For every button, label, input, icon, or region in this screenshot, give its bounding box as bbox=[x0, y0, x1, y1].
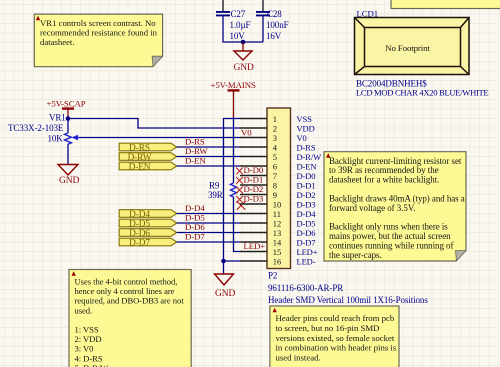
wire C28 bottom bbox=[262, 15, 264, 42]
svg-text:100nF: 100nF bbox=[266, 20, 289, 30]
svg-text:D-RS: D-RS bbox=[129, 143, 150, 153]
LCD module LCD1 3D body bbox=[355, 18, 470, 75]
connector P2 body bbox=[267, 108, 291, 269]
pin 1 stub bbox=[240, 118, 267, 120]
wire C28 top stub bbox=[262, 0, 264, 11]
no-ERC cross at label D-D2 bbox=[236, 187, 243, 194]
pin 9 stub bbox=[240, 194, 267, 196]
pin 15 stub bbox=[240, 251, 267, 253]
svg-text:Header SMD Vertical 100mil 1X1: Header SMD Vertical 100mil 1X16-Position… bbox=[268, 295, 428, 305]
pin 12 stub bbox=[240, 222, 267, 224]
wire D-RS to pin 4 bbox=[177, 146, 240, 148]
svg-text:D-D6: D-D6 bbox=[297, 228, 316, 238]
svg-text:D-D6: D-D6 bbox=[129, 229, 150, 239]
note: header pins note bbox=[270, 306, 399, 367]
svg-text:D-EN: D-EN bbox=[185, 156, 206, 166]
svg-text:16V: 16V bbox=[266, 31, 282, 41]
svg-text:5: 5 bbox=[273, 152, 277, 162]
wire D-D6 to pin 13 bbox=[177, 232, 240, 234]
potentiometer VR1 bbox=[8, 113, 80, 165]
svg-text:14: 14 bbox=[273, 237, 282, 247]
wire VDD: +5V-SCAP to pin 2 bbox=[68, 119, 240, 129]
svg-text:VR1: VR1 bbox=[49, 113, 66, 123]
svg-text:C27: C27 bbox=[231, 9, 246, 19]
wire D-D5 to pin 12 bbox=[177, 222, 240, 224]
pin 7 stub bbox=[240, 175, 267, 177]
capacitor C28 bbox=[256, 9, 289, 41]
pin 14 stub bbox=[240, 241, 267, 243]
junction LED- / VSS bbox=[221, 259, 226, 264]
pin 4 stub bbox=[240, 146, 267, 148]
wire D-D4 to pin 11 bbox=[177, 213, 240, 215]
pin 13 stub bbox=[240, 232, 267, 234]
note: VR1 contrast note bbox=[34, 14, 162, 67]
no-ERC cross at label D-D1 bbox=[236, 177, 243, 184]
svg-text:+5V-SCAP: +5V-SCAP bbox=[47, 99, 86, 109]
svg-text:VDD: VDD bbox=[297, 123, 315, 133]
no-ERC cross at label D-D3 bbox=[236, 196, 243, 203]
wire C27 bottom bbox=[223, 15, 263, 42]
svg-text:16: 16 bbox=[273, 256, 282, 266]
svg-text:D-D1: D-D1 bbox=[297, 180, 316, 190]
power +5V-SCAP bbox=[47, 99, 86, 119]
svg-text:LED+: LED+ bbox=[297, 247, 318, 257]
pin 16 stub bbox=[240, 260, 267, 262]
svg-text:39R: 39R bbox=[208, 190, 223, 200]
svg-text:D-D7: D-D7 bbox=[185, 232, 205, 242]
svg-text:D-D7: D-D7 bbox=[297, 237, 316, 247]
wire R9 to LED+ pin 15 bbox=[234, 197, 241, 252]
svg-text:8: 8 bbox=[273, 180, 277, 190]
no-ERC cross at label D-D0 bbox=[236, 168, 243, 175]
svg-text:6: 6 bbox=[273, 161, 277, 171]
port D-D6 bbox=[119, 229, 176, 237]
wire LED- pin16 bbox=[224, 260, 241, 262]
svg-text:D-RS: D-RS bbox=[185, 137, 205, 147]
svg-text:1: 1 bbox=[273, 114, 277, 124]
pin 6 stub bbox=[240, 165, 267, 167]
svg-text:R9: R9 bbox=[209, 181, 220, 191]
wire D-D7 to pin 14 bbox=[177, 241, 240, 243]
node +5V-SCAP junction bbox=[66, 116, 71, 121]
svg-text:D-EN: D-EN bbox=[129, 162, 151, 172]
svg-text:No Footprint: No Footprint bbox=[385, 43, 430, 53]
pin 2 stub bbox=[240, 127, 267, 129]
wire +5V-MAINS down to R9 bbox=[233, 117, 235, 183]
svg-text:7: 7 bbox=[273, 171, 277, 181]
svg-text:D-D2: D-D2 bbox=[297, 190, 316, 200]
note: 4-bit control method note bbox=[69, 270, 191, 367]
svg-text:11: 11 bbox=[273, 209, 281, 219]
svg-text:D-EN: D-EN bbox=[297, 161, 317, 171]
pin 8 stub bbox=[240, 184, 267, 186]
port D-D5 bbox=[119, 219, 176, 227]
svg-text:10V: 10V bbox=[230, 31, 246, 41]
svg-text:LCD MOD CHAR 4X20 BLUE/WHITE: LCD MOD CHAR 4X20 BLUE/WHITE bbox=[356, 88, 488, 98]
ground (bottom middle) bbox=[215, 274, 236, 299]
wire V0: wiper to pin 3 bbox=[80, 137, 240, 139]
wire C27 top stub bbox=[222, 0, 224, 11]
note: backlight explanation bbox=[324, 152, 466, 261]
svg-text:V0: V0 bbox=[241, 128, 252, 138]
svg-text:D-RW: D-RW bbox=[128, 153, 152, 163]
svg-text:10K: 10K bbox=[48, 134, 64, 144]
junction top GND bbox=[241, 40, 246, 45]
svg-text:13: 13 bbox=[273, 228, 282, 238]
svg-text:D-D5: D-D5 bbox=[129, 219, 150, 229]
svg-text:D-RW: D-RW bbox=[185, 146, 208, 156]
note: top-right cut-off note bbox=[391, 0, 500, 9]
svg-text:3: 3 bbox=[273, 133, 277, 143]
ground (below VR1) bbox=[58, 165, 80, 187]
svg-text:D-D5: D-D5 bbox=[185, 213, 205, 223]
svg-text:1.0µF: 1.0µF bbox=[230, 20, 251, 30]
svg-text:D-D0: D-D0 bbox=[297, 171, 316, 181]
power +5V-MAINS bbox=[211, 80, 256, 117]
svg-text:LED-: LED- bbox=[297, 256, 316, 266]
port D-EN bbox=[119, 162, 176, 170]
pin 3 stub bbox=[240, 137, 267, 139]
svg-text:D-R/W: D-R/W bbox=[297, 152, 322, 162]
svg-text:P2: P2 bbox=[268, 271, 277, 281]
svg-text:GND: GND bbox=[215, 289, 236, 299]
svg-text:GND: GND bbox=[59, 176, 80, 186]
svg-text:D-D4: D-D4 bbox=[297, 209, 317, 219]
svg-text:D-RS: D-RS bbox=[297, 142, 316, 152]
wire to top ground bbox=[242, 42, 244, 51]
svg-text:10: 10 bbox=[273, 199, 282, 209]
svg-text:D-D6: D-D6 bbox=[185, 222, 205, 232]
resistor R9 39R bbox=[208, 181, 237, 201]
svg-text:961116-6300-AR-PR: 961116-6300-AR-PR bbox=[268, 283, 343, 293]
pin 11 stub bbox=[240, 213, 267, 215]
svg-text:GND: GND bbox=[234, 63, 255, 73]
svg-text:+5V-MAINS: +5V-MAINS bbox=[211, 80, 256, 90]
svg-text:2: 2 bbox=[273, 123, 277, 133]
svg-text:C28: C28 bbox=[267, 9, 282, 19]
svg-text:15: 15 bbox=[273, 247, 282, 257]
svg-text:D-D3: D-D3 bbox=[297, 199, 316, 209]
ground (top, below C27/C28) bbox=[234, 51, 255, 73]
svg-text:D-D7: D-D7 bbox=[129, 238, 150, 248]
port D-D4 bbox=[119, 210, 176, 218]
pin 10 stub bbox=[240, 203, 267, 205]
svg-text:4: 4 bbox=[273, 142, 278, 152]
svg-text:D-D4: D-D4 bbox=[129, 210, 150, 220]
svg-text:9: 9 bbox=[273, 190, 277, 200]
svg-text:D-D4: D-D4 bbox=[185, 203, 205, 213]
svg-text:V0: V0 bbox=[297, 133, 307, 143]
port D-RW bbox=[119, 153, 176, 161]
capacitor C27 bbox=[216, 9, 251, 41]
no-ERC cross on pin 10 wire end bbox=[237, 201, 246, 209]
port D-RS bbox=[119, 143, 176, 151]
wire D-EN to pin 6 bbox=[177, 165, 240, 167]
pin 5 stub bbox=[240, 156, 267, 158]
svg-text:D-D5: D-D5 bbox=[297, 218, 316, 228]
svg-text:12: 12 bbox=[273, 218, 282, 228]
wire D-RW to pin 5 bbox=[177, 156, 240, 158]
svg-text:VSS: VSS bbox=[297, 114, 313, 124]
port D-D7 bbox=[119, 238, 176, 246]
wire VSS pin1 to ground bbox=[224, 119, 241, 275]
svg-text:TC33X-2-103E: TC33X-2-103E bbox=[8, 123, 64, 133]
